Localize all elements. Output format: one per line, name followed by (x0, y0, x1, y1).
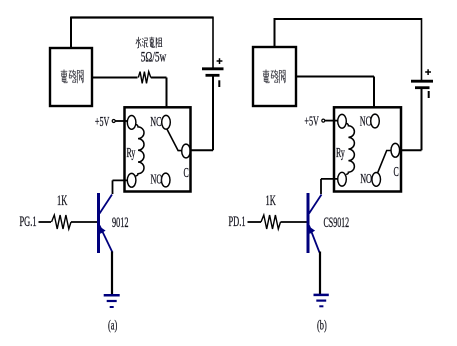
solenoid valve box a (50, 48, 92, 106)
svg-text:NO: NO (360, 172, 372, 187)
wire emitter to ground a (111, 252, 113, 295)
wire top rail b (275, 18, 422, 20)
wire top rail a (71, 16, 213, 18)
label 電磁閥 a (61, 70, 83, 83)
label 水泥電阻 (136, 37, 162, 48)
solenoid valve box b (253, 47, 296, 106)
wire rail to solenoid box a (70, 17, 72, 49)
wire resistor to relay top (151, 78, 167, 108)
node dot +5V b (322, 119, 325, 122)
閥 (77, 70, 83, 83)
電 (263, 70, 269, 83)
node dot +5V a (112, 120, 115, 123)
wire 1K to base b (281, 221, 307, 223)
磁 (69, 70, 76, 82)
battery B2 minus tick (428, 91, 430, 98)
relay box a (125, 107, 191, 191)
svg-text:CS9012: CS9012 (324, 213, 350, 230)
transistor Q2 emitter leg with arrow (down) (309, 226, 320, 253)
battery B1 lead from rail (212, 17, 214, 69)
svg-text:NC: NC (150, 115, 161, 130)
transistor Q1 emitter leg with arrow (down) (100, 226, 113, 253)
svg-text:9012: 9012 (112, 213, 128, 230)
transistor Q2 CS9012 base bar (307, 193, 310, 253)
battery B2 long plate (411, 80, 433, 83)
wire solenoid b to relay top (296, 77, 374, 108)
resistor 1K b zigzag (261, 215, 281, 229)
svg-text:5Ω/5w: 5Ω/5w (141, 48, 166, 65)
磁 (271, 70, 278, 82)
svg-text:(b): (b) (317, 319, 327, 334)
svg-text:+5V: +5V (304, 115, 319, 130)
relay C contact b (391, 143, 400, 157)
svg-text:Ry: Ry (336, 146, 345, 161)
wire 1K to base a (71, 221, 97, 223)
svg-text:PD.1: PD.1 (229, 212, 246, 229)
battery B2 short plate (415, 86, 430, 89)
ground a (104, 295, 120, 307)
wire solenoid a to cement resistor (92, 77, 138, 79)
svg-text:+5V: +5V (95, 115, 110, 130)
svg-text:C: C (394, 165, 399, 180)
label 電磁閥 b (263, 70, 285, 83)
transistor Q1 emitter arrow (99, 226, 105, 234)
wire emitter to ground b (319, 252, 321, 295)
svg-text:Ry: Ry (127, 146, 136, 161)
battery B1 plus sign (217, 58, 223, 64)
wire PG.1 to 1K resistor (39, 221, 52, 223)
switch arm NO to C b (378, 151, 391, 173)
relay coil windings b (346, 123, 354, 174)
battery B1 minus tick (218, 80, 220, 87)
阻 (156, 38, 162, 48)
svg-text:C: C (184, 166, 189, 181)
wire coil bottom exit a (113, 180, 128, 194)
wire battery B2 down to C (400, 89, 422, 151)
wire coil bottom exit b (321, 179, 338, 194)
battery B1 long plate (202, 67, 224, 70)
relay NC contact a (162, 115, 171, 129)
電 (150, 37, 155, 47)
wire battery B1 down to C (190, 76, 213, 150)
svg-text:1K: 1K (57, 191, 67, 208)
svg-text:1K: 1K (266, 191, 276, 208)
ground b (314, 295, 329, 306)
relay box b (334, 107, 401, 191)
transistor Q1 9012 base bar (97, 193, 100, 253)
svg-text:NC: NC (360, 114, 371, 129)
relay coil windings a (136, 124, 144, 176)
cement resistor zigzag (138, 72, 151, 84)
transistor Q2 emitter arrow (309, 226, 315, 234)
wire +5V to coil b (325, 120, 338, 122)
battery B1 short plate (206, 74, 220, 77)
wire PD.1 to 1K resistor (248, 221, 262, 223)
switch arm NC to C a (167, 129, 182, 151)
relay coil bottom terminal b (338, 172, 347, 186)
resistor 1K a zigzag (52, 215, 72, 229)
水 (136, 37, 141, 48)
relay NC contact b (371, 114, 380, 128)
svg-text:NO: NO (151, 173, 163, 188)
relay NO contact b (372, 173, 381, 187)
battery B2 lead from rail (421, 18, 423, 81)
電 (61, 70, 67, 83)
svg-text:PG.1: PG.1 (20, 212, 37, 229)
閥 (279, 70, 285, 83)
relay NO contact a (161, 173, 170, 187)
relay coil top terminal b (338, 114, 347, 128)
relay coil bottom terminal a (127, 173, 136, 187)
泥 (142, 38, 148, 48)
wire rail to solenoid box b (274, 18, 276, 47)
transistor Q1 collector leg (up) (100, 195, 113, 214)
relay coil top terminal a (127, 116, 136, 130)
svg-text:(a): (a) (108, 319, 117, 334)
battery B2 plus sign (425, 69, 431, 75)
transistor Q2 collector leg (up) (309, 195, 322, 214)
relay C contact a (182, 144, 191, 158)
wire +5V to coil a (115, 120, 127, 122)
